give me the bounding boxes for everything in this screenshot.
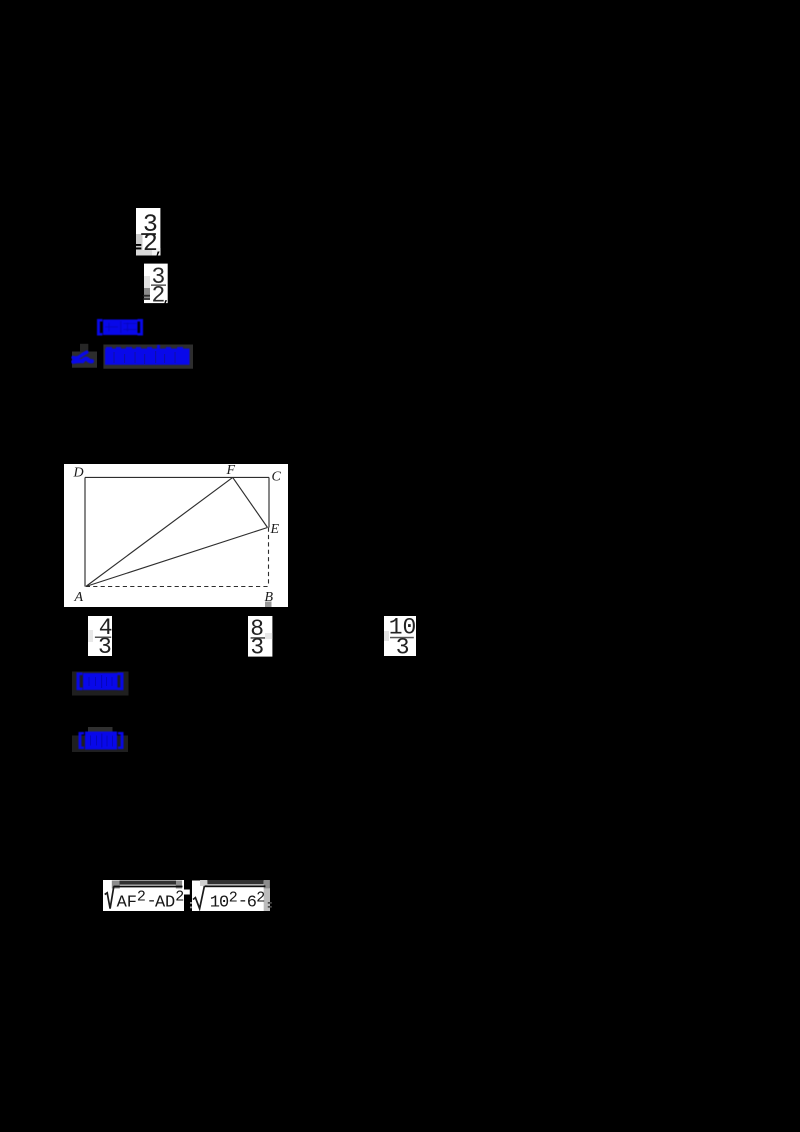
svg-text:3: 3 (250, 634, 264, 656)
formula image: 10/3 (384, 616, 416, 656)
svg-text:2: 2 (137, 888, 146, 905)
gray selection square under B (265, 602, 272, 608)
svg-text:2: 2 (256, 889, 265, 906)
svg-text:,: , (154, 240, 164, 258)
svg-text:E: E (270, 522, 280, 537)
formula image: 4/3 (88, 616, 112, 656)
link icon (blue pencil squiggle) with dark hover background (71, 343, 97, 369)
svg-text:,: , (162, 291, 171, 308)
link 【解答】 (blue, dark bg) (71, 726, 129, 753)
formula image: 8/3 (248, 616, 272, 657)
svg-text:D: D (165, 893, 175, 912)
svg-text:3: 3 (396, 635, 410, 657)
svg-text:2: 2 (229, 889, 238, 906)
formula image: = 3/2 (first) (130, 206, 172, 258)
formula image: sqrt(AF^2-AD^2) (103, 880, 190, 912)
rectangle solid edges: D-C top, D-A left, C-E right upper (85, 477, 269, 586)
link text (blue, on dark hover background) (103, 344, 194, 369)
link 【点评】 (blue) (96, 318, 144, 337)
svg-text:0: 0 (219, 893, 229, 912)
svg-text:3: 3 (98, 634, 112, 656)
svg-text:F: F (127, 893, 137, 912)
svg-text:C: C (272, 470, 282, 485)
link 【分析】 (blue, dark bg) (71, 670, 129, 696)
diagram image: rectangle ABCD with E on BC, F on DC (64, 464, 288, 607)
formula image: = 3/2 (second) (138, 261, 180, 307)
dashed edges: A-B bottom, E-B right lower (86, 528, 269, 587)
triangle lines A-F, A-E, F-E (86, 477, 233, 586)
svg-text:F: F (226, 464, 236, 478)
formula image: sqrt(10^2-6^2) (192, 880, 272, 912)
= between sqrt formulas (gray) (190, 901, 196, 910)
svg-text:A: A (74, 590, 84, 605)
svg-text:2: 2 (175, 888, 184, 905)
svg-text:D: D (73, 466, 84, 481)
